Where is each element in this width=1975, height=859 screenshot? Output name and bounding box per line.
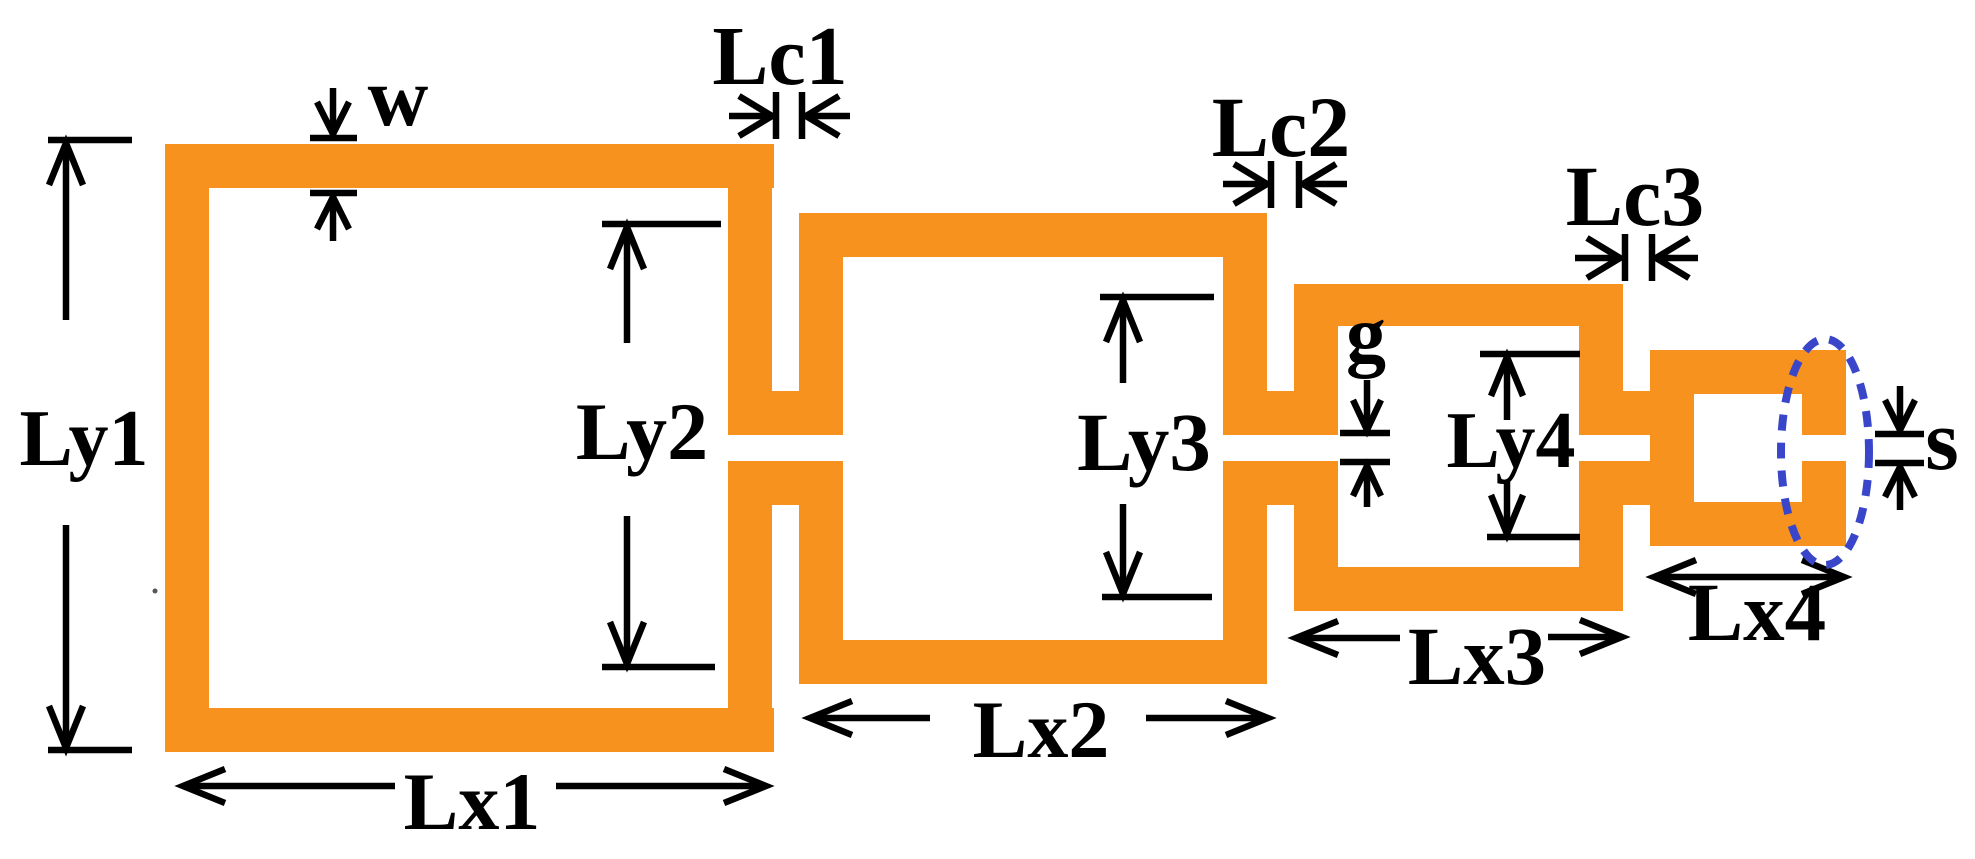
dim Lc3 left tick bbox=[1622, 234, 1629, 281]
resonator loop3 bottom bar bbox=[1294, 567, 1623, 611]
coupling2 lower bridge bbox=[1223, 461, 1338, 505]
dim Lx1 left arrowhead bbox=[183, 769, 225, 803]
dim Lc3 right arrowhead bbox=[1587, 238, 1620, 278]
dim Lc1 left arrow shaft bbox=[729, 113, 772, 120]
svg-text:Lx2: Lx2 bbox=[973, 684, 1110, 775]
resonator loop4 left arm bbox=[1650, 350, 1694, 546]
dim Ly3 lower shaft bbox=[1120, 504, 1127, 594]
resonator loop4 bottom bar bbox=[1650, 502, 1846, 546]
svg-text:Lx3: Lx3 bbox=[1408, 610, 1546, 702]
dim Ly3 upper shaft bbox=[1120, 300, 1127, 383]
coupling3 upper bridge bbox=[1579, 391, 1694, 435]
dim Lx3 left arrowhead bbox=[1296, 621, 1338, 655]
svg-text:Ly1: Ly1 bbox=[20, 395, 149, 483]
dim Lx2 right arrowhead bbox=[1226, 701, 1268, 735]
dim Ly2 lower shaft bbox=[624, 516, 631, 664]
dim Lx4 line bbox=[1654, 574, 1844, 581]
dim Ly2 down arrowhead bbox=[610, 622, 644, 664]
SMA port blue dashed ellipse bbox=[1781, 339, 1869, 565]
dim Ly2 up arrowhead bbox=[610, 227, 644, 269]
resonator loop3 right arm lower bbox=[1579, 461, 1623, 611]
dim Lx2 left segment bbox=[810, 715, 930, 722]
resonator loop2 left arm upper bbox=[799, 213, 843, 435]
svg-text:Lx4: Lx4 bbox=[1688, 566, 1826, 658]
dim Lc1 right arrowhead bbox=[739, 96, 772, 136]
dim Lx3 left segment bbox=[1296, 635, 1400, 642]
coupling1 lower bridge bbox=[728, 461, 843, 505]
resonator loop2 top bar bbox=[799, 213, 1267, 257]
dim g up shaft bbox=[1364, 466, 1371, 507]
svg-text:Ly3: Ly3 bbox=[1077, 396, 1211, 488]
dim Lx2 left arrowhead bbox=[810, 701, 852, 735]
dim g down shaft bbox=[1364, 380, 1371, 430]
dim Ly2 upper shaft bbox=[624, 227, 631, 343]
dim w up shaft bbox=[330, 197, 337, 241]
dim w lower tick bbox=[310, 190, 357, 197]
dim Lc2 left arrow shaft bbox=[1223, 181, 1267, 188]
coupling3 lower bridge bbox=[1579, 461, 1694, 505]
svg-text:Ly4: Ly4 bbox=[1447, 397, 1576, 485]
dim s lower tick bbox=[1875, 460, 1924, 467]
dim Ly3 bottom tick bbox=[1102, 594, 1212, 601]
resonator loop1 bottom bar bbox=[165, 708, 774, 752]
dim w down arrowhead bbox=[317, 102, 349, 134]
dim s up shaft bbox=[1897, 467, 1904, 510]
dim Ly4 upper shaft bbox=[1504, 357, 1511, 420]
dim Lx3 right arrowhead bbox=[1580, 620, 1622, 654]
svg-text:Lc3: Lc3 bbox=[1566, 148, 1705, 244]
svg-text:Lx1: Lx1 bbox=[404, 756, 541, 847]
svg-text:Lc2: Lc2 bbox=[1212, 79, 1351, 175]
dim s up arrowhead bbox=[1885, 467, 1915, 497]
dim Ly3 top tick bbox=[1100, 294, 1214, 301]
coupling1 upper bridge bbox=[728, 391, 843, 435]
dim Lc3 right arrow shaft bbox=[1656, 255, 1698, 262]
dim Ly4 down arrowhead bbox=[1491, 495, 1523, 534]
resonator loop2 left arm lower bbox=[799, 461, 843, 684]
dim Lc1 right tick bbox=[799, 92, 806, 139]
stray ink speck bbox=[153, 589, 158, 594]
dim Lx4 left arrowhead bbox=[1654, 560, 1696, 594]
dim Ly1 down arrowhead bbox=[49, 706, 83, 748]
resonator loop3 right arm upper bbox=[1579, 284, 1623, 435]
dim Ly3 up arrowhead bbox=[1106, 300, 1140, 342]
dim s down arrowhead bbox=[1885, 400, 1915, 430]
coupling2 upper bridge bbox=[1223, 391, 1338, 435]
resonator loop4 right arm upper bbox=[1802, 350, 1846, 435]
dim w upper tick bbox=[310, 135, 357, 142]
dim Lx2 right segment bbox=[1146, 715, 1268, 722]
dim Lc3 left arrowhead bbox=[1656, 238, 1689, 278]
resonator loop1 left bar bbox=[165, 144, 209, 752]
resonator loop4 right arm lower bbox=[1802, 461, 1846, 546]
dim Lc2 left arrowhead bbox=[1303, 164, 1336, 204]
dim Lx1 right segment bbox=[556, 783, 766, 790]
dim Lx1 right arrowhead bbox=[724, 769, 766, 803]
dim Lc2 right arrow shaft bbox=[1303, 181, 1347, 188]
dim Lc2 right arrowhead bbox=[1234, 164, 1267, 204]
dim Lc1 left tick bbox=[773, 92, 780, 139]
dim Ly2 top tick bbox=[602, 221, 721, 228]
dim Ly4 lower shaft bbox=[1504, 480, 1511, 534]
dim Ly1 upper shaft bbox=[63, 143, 70, 320]
dim Lc2 left tick bbox=[1268, 161, 1275, 208]
dim Ly1 bottom tick bbox=[48, 747, 132, 754]
resonator loop2 right arm upper bbox=[1223, 213, 1267, 435]
resonator loop1 top bar bbox=[165, 144, 774, 188]
svg-text:g: g bbox=[1346, 291, 1386, 379]
dim g upper tick bbox=[1340, 430, 1390, 437]
dim Ly4 top tick bbox=[1480, 351, 1580, 358]
dim Lx1 left segment bbox=[183, 783, 395, 790]
resonator loop3 top bar bbox=[1294, 284, 1623, 326]
dim g lower tick bbox=[1340, 459, 1390, 466]
dim s upper tick bbox=[1875, 431, 1924, 438]
resonator loop4 top bar bbox=[1650, 350, 1846, 394]
dim w down shaft bbox=[330, 88, 337, 134]
svg-text:Lc1: Lc1 bbox=[712, 10, 847, 103]
dim Ly3 down arrowhead bbox=[1106, 552, 1140, 594]
resonator loop2 right arm lower bbox=[1223, 461, 1267, 684]
dim w up arrowhead bbox=[317, 197, 349, 229]
dim Lc3 left arrow shaft bbox=[1575, 255, 1620, 262]
dim Ly4 up arrowhead bbox=[1491, 357, 1523, 396]
dim Lx3 right segment bbox=[1548, 634, 1622, 641]
dim Lc1 left arrowhead bbox=[806, 96, 839, 136]
svg-text:s: s bbox=[1925, 392, 1958, 488]
dim g up arrowhead bbox=[1353, 466, 1381, 496]
dim g down arrowhead bbox=[1353, 400, 1381, 430]
dim Lc1 right arrow shaft bbox=[806, 113, 850, 120]
resonator loop3 left arm upper bbox=[1294, 284, 1338, 435]
dim Lx4 right arrowhead bbox=[1802, 560, 1844, 594]
svg-text:w: w bbox=[368, 51, 429, 144]
dim s down shaft bbox=[1897, 386, 1904, 430]
dim Ly2 bottom tick bbox=[602, 664, 715, 671]
dim Ly4 bottom tick bbox=[1487, 534, 1580, 541]
svg-text:Ly2: Ly2 bbox=[576, 386, 708, 477]
dim Ly1 lower shaft bbox=[63, 525, 70, 748]
resonator loop1 right arm upper bbox=[728, 144, 772, 435]
resonator loop1 right arm lower bbox=[728, 461, 772, 752]
dim Ly1 top tick bbox=[48, 137, 132, 144]
dim Lc2 right tick bbox=[1296, 161, 1303, 208]
dim Lc3 right tick bbox=[1649, 234, 1656, 281]
dim Ly1 up arrowhead bbox=[49, 143, 83, 185]
resonator loop2 bottom bar bbox=[799, 640, 1267, 684]
resonator loop3 left arm lower bbox=[1294, 461, 1338, 611]
